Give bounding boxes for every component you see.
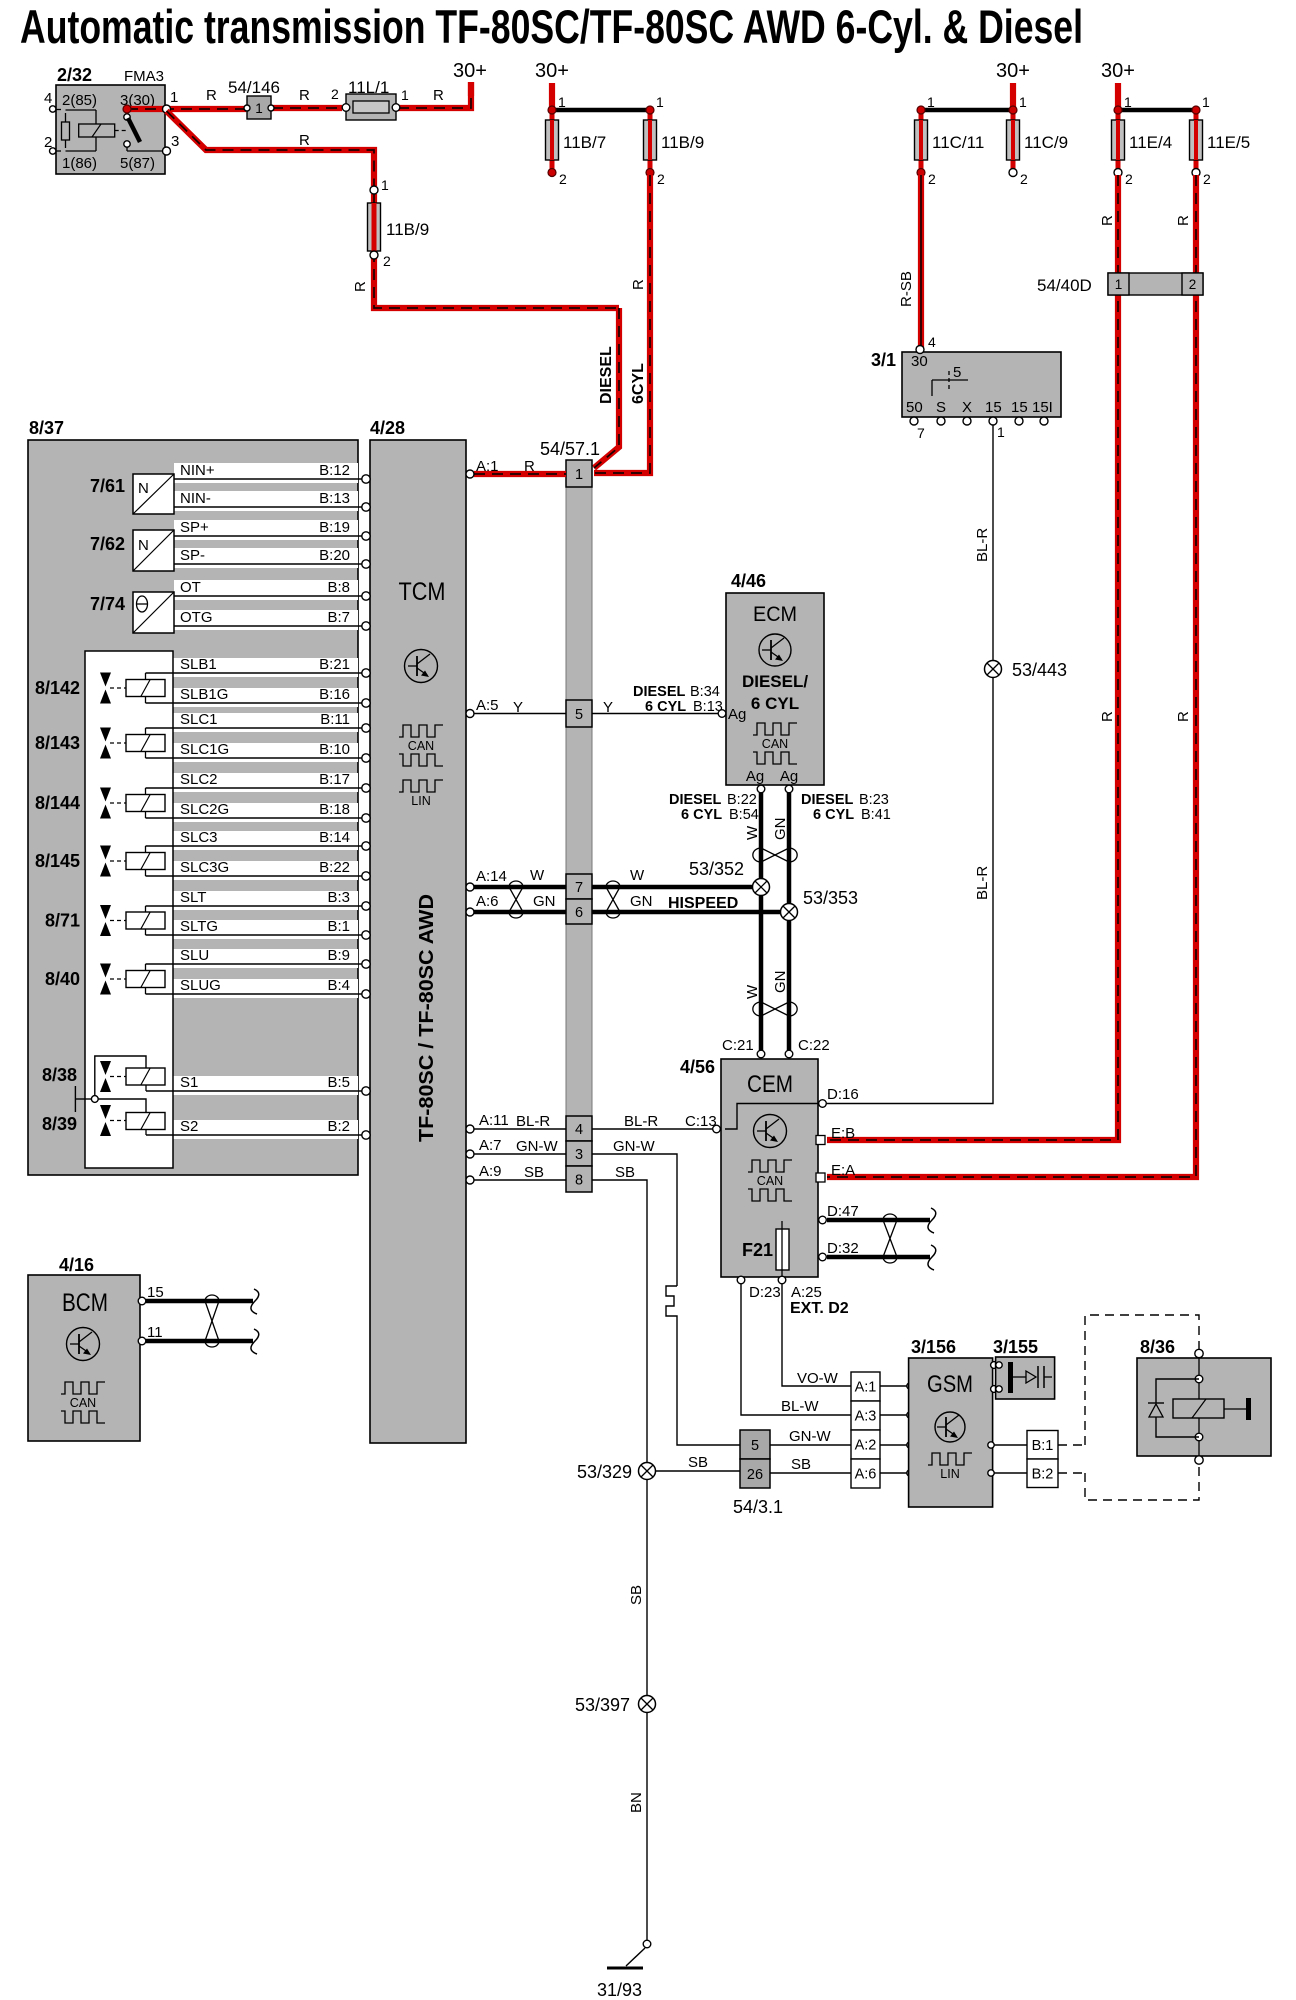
svg-text:2: 2 <box>657 171 665 187</box>
svg-text:C:21: C:21 <box>722 1037 754 1054</box>
svg-text:1: 1 <box>927 94 935 110</box>
svg-text:26: 26 <box>747 1467 763 1483</box>
svg-text:BL-R: BL-R <box>624 1113 658 1130</box>
TCM control-unit symbol <box>405 650 438 683</box>
ECM 4/46 box <box>726 593 824 785</box>
svg-text:W: W <box>530 867 545 884</box>
svg-text:GN: GN <box>630 893 653 910</box>
svg-text:GN: GN <box>772 818 789 841</box>
white strips for wire rows in 8/37 <box>174 463 358 483</box>
svg-text:8/71: 8/71 <box>45 911 80 931</box>
relay 8/36 box <box>1137 1358 1271 1456</box>
BCM control-unit symbol <box>67 1328 100 1361</box>
bus bar 11B/7/11B/9 <box>552 108 650 113</box>
BCM pin 11 <box>138 1337 146 1345</box>
svg-text:SLTG: SLTG <box>180 918 218 935</box>
svg-text:C:13: C:13 <box>685 1113 717 1130</box>
svg-text:A:6: A:6 <box>476 893 499 910</box>
block 4/28 TCM <box>370 440 466 1443</box>
svg-text:R: R <box>1175 215 1192 226</box>
svg-text:A:1: A:1 <box>476 458 499 475</box>
wire SB splice to 54/3.1 pin 26 <box>655 1470 740 1472</box>
svg-text:B:8: B:8 <box>327 579 350 596</box>
wire R-SB from 11C/11 to ignition switch 3/1 <box>918 175 924 347</box>
wire OTG to TCM B:7 <box>174 625 362 627</box>
wires A column to GSM <box>880 1385 908 1387</box>
splice 53/397 <box>639 1696 656 1713</box>
54/57.1 pin 6 box <box>566 899 592 924</box>
8/36 relay coil <box>1173 1399 1224 1418</box>
3/1 pin 30 top <box>916 346 924 354</box>
svg-text:S1: S1 <box>180 1074 198 1091</box>
3/1 key switch symbol <box>931 380 933 396</box>
relay internal resistor <box>65 113 67 122</box>
svg-text:B:54: B:54 <box>729 807 759 823</box>
svg-text:LIN: LIN <box>940 1467 959 1481</box>
svg-text:1: 1 <box>170 89 178 106</box>
svg-text:1: 1 <box>1202 94 1210 110</box>
svg-text:11E/5: 11E/5 <box>1207 133 1250 152</box>
wire GN-W 54/3.1 to GSM A:2 <box>770 1444 851 1446</box>
TCM LIN symbol <box>399 780 443 792</box>
svg-text:B:1: B:1 <box>1032 1438 1054 1454</box>
wire SP- to TCM B:20 <box>174 563 362 565</box>
svg-text:CAN: CAN <box>408 739 434 753</box>
svg-text:CAN: CAN <box>70 1396 96 1410</box>
svg-text:NIN-: NIN- <box>180 490 211 507</box>
svg-text:15: 15 <box>1011 399 1028 416</box>
GSM pin B:1 box <box>1027 1431 1058 1460</box>
svg-text:A:2: A:2 <box>855 1438 877 1454</box>
svg-text:SLC1: SLC1 <box>180 711 218 728</box>
svg-text:DIESEL: DIESEL <box>633 684 686 700</box>
svg-text:A:3: A:3 <box>855 1409 877 1425</box>
svg-text:2/32: 2/32 <box>57 65 92 85</box>
svg-text:2: 2 <box>383 253 391 269</box>
svg-text:A:6: A:6 <box>855 1467 877 1483</box>
svg-text:B:23: B:23 <box>859 792 889 808</box>
svg-text:Y: Y <box>603 699 613 716</box>
ignition switch 3/1 box <box>902 352 1061 417</box>
svg-text:B:4: B:4 <box>327 977 350 994</box>
svg-text:DIESEL: DIESEL <box>598 346 615 404</box>
svg-text:11B/9: 11B/9 <box>661 133 704 152</box>
svg-text:1: 1 <box>558 94 566 110</box>
svg-text:FMA3: FMA3 <box>124 68 164 85</box>
svg-text:1: 1 <box>401 87 409 103</box>
svg-text:30: 30 <box>911 353 928 370</box>
svg-text:6 CYL: 6 CYL <box>645 699 686 715</box>
svg-text:SLB1G: SLB1G <box>180 686 228 703</box>
3/1 bottom pin at x=1044 <box>1040 417 1048 425</box>
svg-text:1: 1 <box>997 424 1005 440</box>
svg-text:7: 7 <box>575 880 583 896</box>
svg-text:BN: BN <box>628 1792 645 1813</box>
svg-text:30+: 30+ <box>1101 60 1135 82</box>
svg-text:8/38: 8/38 <box>42 1065 77 1085</box>
fuse 11B/9 <box>648 110 653 172</box>
svg-text:SLT: SLT <box>180 889 206 906</box>
relay dashed link to switch <box>115 130 127 132</box>
svg-text:GN: GN <box>533 893 556 910</box>
svg-text:SB: SB <box>615 1164 635 1181</box>
svg-text:1: 1 <box>1019 94 1027 110</box>
svg-text:Ag: Ag <box>780 768 798 785</box>
svg-text:4: 4 <box>44 90 52 107</box>
svg-text:B:41: B:41 <box>861 807 891 823</box>
svg-text:R: R <box>1099 711 1116 722</box>
svg-text:31/93: 31/93 <box>597 1980 642 2000</box>
svg-text:54/40D: 54/40D <box>1037 276 1092 295</box>
wire W TCM A:14 HISPEED <box>474 885 566 890</box>
svg-text:D:47: D:47 <box>827 1203 859 1220</box>
wire BN to ground 31/93 <box>646 1712 648 1940</box>
svg-text:6CYL: 6CYL <box>630 363 647 404</box>
svg-text:BL-R: BL-R <box>974 528 991 562</box>
svg-text:2: 2 <box>1189 277 1197 292</box>
twisted pair symbols HISPEED <box>509 881 523 887</box>
bus bar 11E/4/11E/5 <box>1118 108 1196 113</box>
3/1 bottom pin at x=967 <box>963 417 971 425</box>
svg-text:B:21: B:21 <box>319 656 350 673</box>
relay left pins <box>50 106 56 112</box>
svg-text:S: S <box>936 399 946 416</box>
svg-text:5(87): 5(87) <box>120 155 155 172</box>
twisted pair symbol ECM pair upper <box>753 848 761 862</box>
wire S2 to TCM B:2 <box>146 1134 362 1136</box>
svg-text:N: N <box>138 537 149 554</box>
BCM CAN symbol <box>61 1382 105 1394</box>
svg-text:EXT. D2: EXT. D2 <box>790 1300 849 1317</box>
svg-text:1(86): 1(86) <box>62 155 97 172</box>
wire SLB1G to TCM B:16 <box>146 702 363 704</box>
bus bar 11C/11/11C/9 <box>921 108 1013 113</box>
wire SLU to TCM B:9 <box>146 963 363 965</box>
fuse 11B/7 pins <box>548 106 556 114</box>
svg-text:SLU: SLU <box>180 947 209 964</box>
fuse 11B/9 pins <box>646 106 654 114</box>
wire D:47 twisted to body <box>827 1218 930 1223</box>
splice 53/353 symbol <box>781 904 798 921</box>
CEM control-unit symbol <box>754 1115 787 1148</box>
wire Y TCM A:5 to ECM <box>474 713 566 715</box>
svg-text:54/3.1: 54/3.1 <box>733 1497 783 1517</box>
svg-text:D:32: D:32 <box>827 1240 859 1257</box>
svg-text:53/352: 53/352 <box>689 859 744 879</box>
svg-text:R: R <box>299 87 310 104</box>
wire SP+ to TCM B:19 <box>174 535 362 537</box>
relay internal coil <box>66 109 97 111</box>
54/57.1 pin 5 box <box>566 700 592 727</box>
svg-text:6 CYL: 6 CYL <box>813 807 854 823</box>
wire BL-W CEM D:23 to GSM A:3 <box>741 1284 851 1415</box>
wire R relay branch down to fuse 11B/9 left <box>167 111 375 186</box>
3/155 box <box>996 1357 1055 1399</box>
svg-text:8/36: 8/36 <box>1140 1337 1175 1357</box>
dashed wires B:1 B:2 to relay 8/36 <box>1058 1444 1085 1446</box>
svg-text:Automatic transmission TF-80SC: Automatic transmission TF-80SC/TF-80SC A… <box>20 0 1083 53</box>
svg-text:CEM: CEM <box>747 1071 793 1098</box>
svg-text:A:9: A:9 <box>479 1163 502 1180</box>
svg-text:B:5: B:5 <box>327 1074 350 1091</box>
wire DIESEL red down to 54/57.1 pin 1 <box>594 308 619 468</box>
svg-text:GN: GN <box>772 971 789 994</box>
svg-text:W: W <box>630 867 645 884</box>
svg-text:D:16: D:16 <box>827 1086 859 1103</box>
svg-text:1: 1 <box>656 94 664 110</box>
svg-text:TCM: TCM <box>399 578 446 606</box>
svg-text:R: R <box>524 458 535 475</box>
svg-text:A:5: A:5 <box>476 697 499 714</box>
splice 53/329 <box>639 1463 656 1480</box>
CEM internal link C:13 to D:16 <box>725 1104 818 1130</box>
fuse 11B/7 <box>550 110 555 172</box>
wire SLC1 to TCM B:11 <box>146 727 363 729</box>
8/36 contact <box>1224 1408 1247 1410</box>
svg-text:53/353: 53/353 <box>803 888 858 908</box>
svg-text:8/145: 8/145 <box>35 851 80 871</box>
wire BL-R from 3/1 to CEM D:16 <box>827 425 993 1104</box>
wire GN ECM to CEM C:22 <box>787 793 792 1050</box>
svg-text:B:2: B:2 <box>1032 1467 1054 1483</box>
svg-text:GSM: GSM <box>927 1371 973 1398</box>
wire SLUG to TCM B:4 <box>146 993 363 995</box>
svg-text:BL-R: BL-R <box>516 1113 550 1130</box>
svg-text:11E/4: 11E/4 <box>1129 133 1172 152</box>
svg-text:SLC1G: SLC1G <box>180 741 229 758</box>
BCM 4/16 box <box>28 1275 140 1441</box>
svg-text:B:10: B:10 <box>319 741 350 758</box>
svg-text:8: 8 <box>575 1173 583 1189</box>
svg-text:2(85): 2(85) <box>62 92 97 109</box>
wire SLT to TCM B:3 <box>146 905 363 907</box>
svg-text:X: X <box>962 399 972 416</box>
svg-text:B:13: B:13 <box>319 490 350 507</box>
wire SLC3 to TCM B:14 <box>146 845 363 847</box>
svg-text:1: 1 <box>575 467 583 483</box>
relay switch blade <box>124 114 130 120</box>
svg-text:4: 4 <box>575 1122 583 1138</box>
svg-text:F21: F21 <box>742 1240 773 1260</box>
svg-text:SB: SB <box>791 1456 811 1473</box>
svg-text:3: 3 <box>575 1147 583 1163</box>
svg-text:B:9: B:9 <box>327 947 350 964</box>
fuse 11C/9 <box>1011 110 1016 172</box>
wire SLC2G to TCM B:18 <box>146 817 363 819</box>
svg-text:OTG: OTG <box>180 609 213 626</box>
wire D:32 twisted to body <box>827 1255 930 1260</box>
svg-text:LIN: LIN <box>411 794 430 808</box>
svg-text:30+: 30+ <box>535 60 569 82</box>
svg-text:BL-W: BL-W <box>781 1398 819 1415</box>
CEM CAN symbol <box>748 1160 792 1172</box>
svg-text:30+: 30+ <box>996 60 1030 82</box>
wire R from 11E/4 down to CEM E:B <box>827 175 1118 1140</box>
wire SLC3G to TCM B:22 <box>146 875 363 877</box>
svg-text:NIN+: NIN+ <box>180 462 215 479</box>
svg-text:R: R <box>352 281 369 292</box>
svg-text:W: W <box>744 984 761 999</box>
wire GN TCM A:6 HISPEED <box>474 910 566 915</box>
svg-text:E:A: E:A <box>831 1162 855 1179</box>
svg-text:11C/11: 11C/11 <box>932 133 984 152</box>
svg-text:B:2: B:2 <box>327 1118 350 1135</box>
svg-text:SLC3: SLC3 <box>180 829 218 846</box>
svg-text:53/443: 53/443 <box>1012 660 1067 680</box>
svg-text:DIESEL/: DIESEL/ <box>742 672 808 691</box>
wire GN-W TCM A:7 to 54/3.1 pin 5 <box>474 1153 566 1155</box>
svg-text:E:B: E:B <box>831 1125 855 1142</box>
svg-text:8/143: 8/143 <box>35 733 80 753</box>
svg-text:SLC3G: SLC3G <box>180 859 229 876</box>
svg-text:8/144: 8/144 <box>35 793 80 813</box>
fuse 11C/11 <box>919 110 924 172</box>
8/36 internal circuit <box>1198 1358 1200 1375</box>
3/155 internal symbol <box>996 1362 1002 1368</box>
svg-text:11B/7: 11B/7 <box>563 133 606 152</box>
svg-text:DIESEL: DIESEL <box>669 792 722 808</box>
connector 54/3.1 <box>740 1430 770 1459</box>
svg-text:GN-W: GN-W <box>613 1138 655 1155</box>
svg-text:SB: SB <box>628 1585 645 1605</box>
svg-text:BCM: BCM <box>62 1289 108 1317</box>
wire NIN+ to TCM B:12 <box>174 478 362 480</box>
wire R relay to 30+ via 54/146 and 11L/1 <box>127 106 246 112</box>
svg-text:R: R <box>206 87 217 104</box>
svg-text:B:22: B:22 <box>319 859 350 876</box>
fuse 11E/4 <box>1116 110 1121 172</box>
svg-text:A:7: A:7 <box>479 1137 502 1154</box>
svg-text:Ag: Ag <box>746 768 764 785</box>
wires GSM to B:1 B:2 <box>993 1444 1027 1446</box>
svg-text:8/37: 8/37 <box>29 418 64 438</box>
ECM CAN symbol <box>753 723 797 735</box>
svg-text:B:7: B:7 <box>327 609 350 626</box>
junction of 8/38 and 8/39 leads <box>74 1086 76 1112</box>
svg-text:5: 5 <box>953 364 961 381</box>
svg-text:6 CYL: 6 CYL <box>751 694 799 713</box>
svg-text:Y: Y <box>513 699 523 716</box>
svg-text:B:18: B:18 <box>319 801 350 818</box>
svg-text:Ag: Ag <box>728 706 746 723</box>
svg-text:54/146: 54/146 <box>228 78 280 97</box>
svg-text:3: 3 <box>171 133 179 150</box>
svg-text:53/329: 53/329 <box>577 1462 632 1482</box>
svg-text:ECM: ECM <box>753 603 797 626</box>
svg-text:54/57.1: 54/57.1 <box>540 439 600 459</box>
wire NIN- to TCM B:13 <box>174 506 362 508</box>
block 8/37 transmission assembly <box>28 440 358 1175</box>
CEM bottom pins D:23 A:25 <box>737 1276 745 1284</box>
relay 2/32 FMA3 box <box>56 85 165 174</box>
GSM pin A:1 box <box>851 1372 880 1401</box>
svg-text:D:23: D:23 <box>749 1284 781 1301</box>
svg-text:BL-R: BL-R <box>974 866 991 900</box>
svg-text:3/156: 3/156 <box>911 1337 956 1357</box>
8/36 pins top/bottom <box>1195 1349 1203 1357</box>
splice 53/443 <box>985 661 1002 678</box>
svg-text:SB: SB <box>688 1454 708 1471</box>
3/1 bottom pin at x=1019 <box>1015 417 1023 425</box>
svg-text:SP+: SP+ <box>180 519 209 536</box>
svg-text:SLB1: SLB1 <box>180 656 217 673</box>
wire 6CYL red from fuse 11B/9 to 54/57.1 pin 1 <box>594 175 650 473</box>
svg-text:50: 50 <box>906 399 923 416</box>
twisted pair symbol ECM pair lower <box>753 1002 761 1016</box>
wire SLC1G to TCM B:10 <box>146 757 363 759</box>
8/36 diode <box>1148 1402 1164 1404</box>
GSM pin A:3 box <box>851 1401 880 1430</box>
svg-text:3/155: 3/155 <box>993 1337 1038 1357</box>
dashed route to 8/36 <box>1085 1315 1199 1445</box>
svg-text:GN-W: GN-W <box>516 1138 558 1155</box>
svg-text:4/56: 4/56 <box>680 1057 715 1077</box>
svg-text:B:19: B:19 <box>319 519 350 536</box>
wire SLTG to TCM B:1 <box>146 934 363 936</box>
svg-text:11B/9: 11B/9 <box>386 220 429 239</box>
ground 31/93 <box>643 1940 651 1948</box>
svg-text:1: 1 <box>381 177 389 193</box>
svg-text:6: 6 <box>575 905 583 921</box>
GSM pin A:2 box <box>851 1430 880 1459</box>
svg-text:15I: 15I <box>1032 399 1053 416</box>
fuse 11B/9 (lower left) <box>368 203 381 251</box>
svg-text:A:25: A:25 <box>791 1284 822 1301</box>
CEM top pins C:21 C:22 <box>757 1050 765 1058</box>
svg-text:4/46: 4/46 <box>731 571 766 591</box>
svg-text:7/62: 7/62 <box>90 534 125 554</box>
ECM pin Ag left <box>718 710 726 718</box>
svg-text:4/16: 4/16 <box>59 1255 94 1275</box>
svg-text:B:34: B:34 <box>690 684 720 700</box>
svg-text:S2: S2 <box>180 1118 198 1135</box>
svg-text:GN-W: GN-W <box>789 1428 831 1445</box>
fuse 11E/5 pins <box>1192 106 1200 114</box>
relay pin 1 circle <box>163 105 171 113</box>
svg-text:B:22: B:22 <box>727 792 757 808</box>
wire R from 11E/5 down to CEM E:A <box>827 175 1196 1177</box>
svg-text:B:3: B:3 <box>327 889 350 906</box>
svg-text:N: N <box>138 480 149 497</box>
svg-text:B:17: B:17 <box>319 771 350 788</box>
svg-text:3/1: 3/1 <box>871 350 896 370</box>
wire SB splice 53/329 down to ground <box>646 1479 648 1696</box>
GSM right pins to 3/155 <box>991 1362 998 1369</box>
GSM pin A:6 box <box>851 1459 880 1488</box>
wire SB TCM A:9 to splice 53/329 <box>474 1179 566 1181</box>
54/57.1 pin 8 box <box>566 1166 592 1192</box>
svg-text:CAN: CAN <box>757 1174 783 1188</box>
svg-text:B:12: B:12 <box>319 462 350 479</box>
svg-text:8/39: 8/39 <box>42 1114 77 1134</box>
wire OT to TCM B:8 <box>174 595 362 597</box>
svg-text:W: W <box>744 825 761 840</box>
svg-text:OT: OT <box>180 579 201 596</box>
svg-text:A:1: A:1 <box>855 1380 877 1396</box>
solenoid white box in 8/37 <box>85 651 173 1168</box>
svg-text:2: 2 <box>928 171 936 187</box>
svg-text:5: 5 <box>575 707 583 723</box>
wire VO-W CEM A:25 to GSM A:1 <box>782 1284 851 1386</box>
svg-text:TF-80SC / TF-80SC AWD: TF-80SC / TF-80SC AWD <box>416 894 438 1142</box>
3/1 bottom pin at x=993 <box>989 417 997 425</box>
svg-text:HISPEED: HISPEED <box>668 895 738 912</box>
fuse 11C/9 pins <box>1009 106 1017 114</box>
svg-text:A:11: A:11 <box>479 1112 509 1129</box>
svg-text:2: 2 <box>331 86 339 102</box>
splice 53/352 symbol <box>753 879 770 896</box>
svg-text:2: 2 <box>1203 171 1211 187</box>
